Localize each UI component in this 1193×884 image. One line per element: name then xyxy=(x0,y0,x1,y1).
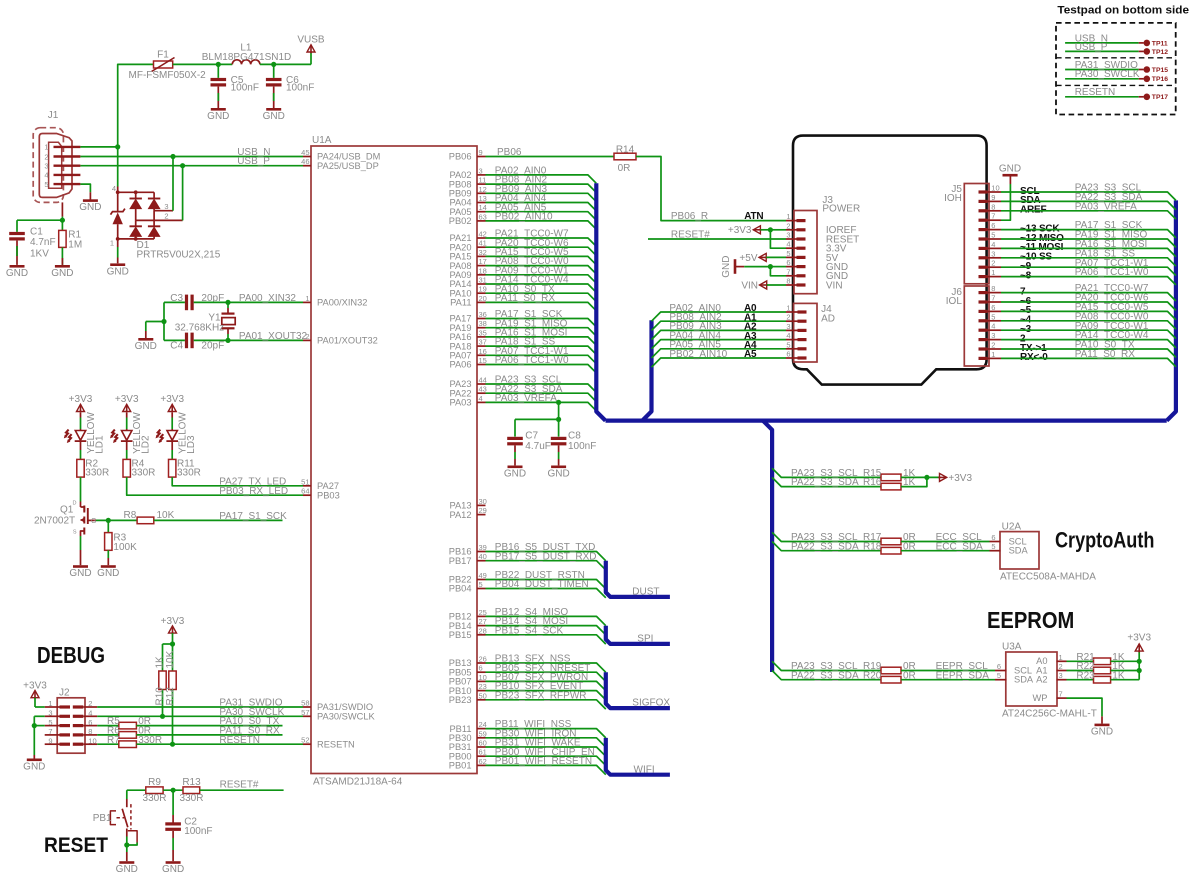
svg-text:2: 2 xyxy=(991,259,995,268)
wire PA11_S0_RX xyxy=(486,302,597,310)
wire PB30_WIFI_IRQN xyxy=(486,738,606,747)
svg-text:ATSAMD21J18A-64: ATSAMD21J18A-64 xyxy=(313,777,403,788)
svg-text:PA17_S1_SCK: PA17_S1_SCK xyxy=(219,511,287,522)
pin U1A-63 PB02 xyxy=(477,220,486,222)
svg-text:PA11_S0_RX: PA11_S0_RX xyxy=(495,293,556,304)
resistor R13 xyxy=(183,787,200,794)
resistor R15 xyxy=(881,474,901,481)
power +3V3 LD3 xyxy=(171,404,173,412)
svg-text:PB03: PB03 xyxy=(317,490,340,500)
svg-text:R18: R18 xyxy=(863,541,882,552)
svg-text:5: 5 xyxy=(479,580,483,589)
switch PB1 xyxy=(126,790,128,799)
svg-text:PA00_XIN32: PA00_XIN32 xyxy=(239,293,297,304)
svg-text:EEPR_SDA: EEPR_SDA xyxy=(936,670,990,681)
diode D1d top xyxy=(153,192,155,198)
svg-text:USB_P: USB_P xyxy=(1075,42,1108,53)
svg-text:PB06: PB06 xyxy=(497,147,522,158)
wire PA05_AIN5 to J4 xyxy=(652,349,787,358)
svg-text:R7: R7 xyxy=(107,735,120,746)
pin J3-1 xyxy=(797,219,806,222)
resistor R10 xyxy=(162,644,164,671)
resistor R12 xyxy=(172,644,174,671)
svg-text:PB17: PB17 xyxy=(449,556,472,566)
power +3V3 R10 R12 xyxy=(172,626,174,634)
resistor R18 xyxy=(881,547,901,554)
led LD1 xyxy=(80,429,82,431)
svg-text:IOL: IOL xyxy=(946,296,963,307)
pin U1A-16 PA07 xyxy=(477,354,486,356)
ground GND R1 xyxy=(55,265,70,268)
wire PA06_TCC1-W0 to J5 xyxy=(1001,277,1176,285)
wire PA22_S3_SDA to R20 xyxy=(772,671,881,680)
svg-text:51: 51 xyxy=(301,477,309,486)
wire PA08_TCC0-W0 to J6 xyxy=(1001,321,1176,329)
wire PA20_TCC0-W6 xyxy=(486,247,597,255)
pin U1A-29 PA12 xyxy=(477,514,486,516)
svg-text:+3V3: +3V3 xyxy=(115,394,139,405)
svg-text:GND: GND xyxy=(999,164,1021,175)
pin J4-1 xyxy=(798,310,807,313)
wire PA31_SWDIO xyxy=(97,706,303,708)
wire PB08_AIN2 to J4 xyxy=(652,321,787,330)
pin J4-3 xyxy=(798,329,807,332)
svg-text:PB15_S4_SCK: PB15_S4_SCK xyxy=(495,625,564,636)
svg-text:0R: 0R xyxy=(618,163,631,174)
svg-text:2N7002T: 2N7002T xyxy=(34,516,75,527)
svg-text:3: 3 xyxy=(991,331,995,340)
wire PB16_S5_DUST_TXD xyxy=(486,552,606,561)
wire PA30_SWCLK xyxy=(97,715,303,717)
svg-text:3: 3 xyxy=(786,231,790,240)
svg-text:7: 7 xyxy=(991,212,995,221)
wire Q1 source to ground xyxy=(80,536,82,550)
pin U1A-61 PB00 xyxy=(477,755,486,757)
pin U1A-19 PA10 xyxy=(477,292,486,294)
resistor R19 xyxy=(881,667,901,674)
wire crystal gnd branch xyxy=(163,302,165,340)
ground GND Q1 xyxy=(73,565,88,568)
svg-text:PB06_R: PB06_R xyxy=(671,211,708,222)
wire PA23_S3_SCL to R19 xyxy=(772,661,881,670)
svg-text:SDA: SDA xyxy=(1014,675,1034,685)
svg-text:29: 29 xyxy=(479,506,487,515)
wire ECC_SDA xyxy=(901,550,990,552)
svg-text:+3V3: +3V3 xyxy=(728,225,752,236)
pin J1-2 xyxy=(54,155,81,157)
pin J6-3 xyxy=(979,338,988,341)
pin U1A-2 PA01/XOUT32 xyxy=(303,339,311,341)
svg-text:GND: GND xyxy=(721,255,732,277)
power +3V3 LD1 xyxy=(80,404,82,412)
pin U1A-40 PB17 xyxy=(477,560,486,562)
wire VUSB rail xyxy=(118,64,154,146)
svg-text:5: 5 xyxy=(48,718,52,727)
svg-text:PA00/XIN32: PA00/XIN32 xyxy=(317,298,367,308)
svg-text:3: 3 xyxy=(48,709,52,718)
pin U1A-43 PA22 xyxy=(477,392,486,394)
svg-text:PA30/SWCLK: PA30/SWCLK xyxy=(317,712,375,722)
pin U3A-6 SCL xyxy=(995,670,1007,672)
wire PA11_S0_RX to J6 xyxy=(1001,358,1176,366)
svg-text:SDA: SDA xyxy=(1009,546,1029,556)
wire PA03_VREFA xyxy=(486,402,597,410)
svg-text:3: 3 xyxy=(164,202,168,211)
svg-text:45: 45 xyxy=(301,148,309,157)
pin U1A-38 PA19 xyxy=(477,327,486,329)
svg-text:2: 2 xyxy=(786,221,790,230)
wire PA04_AIN4 to J4 xyxy=(652,340,787,349)
svg-text:GND: GND xyxy=(116,864,138,875)
wire PA10_S0_TX xyxy=(136,725,282,727)
svg-text:GND: GND xyxy=(23,761,45,772)
wire PA11_S0_RX xyxy=(136,734,282,736)
svg-text:PB17_S5_DUST_RXD: PB17_S5_DUST_RXD xyxy=(495,551,597,562)
svg-text:+3V3: +3V3 xyxy=(161,616,185,627)
pin J6-4 xyxy=(979,329,988,332)
svg-text:10K: 10K xyxy=(157,510,175,521)
resistor R14 xyxy=(614,153,636,160)
power +3V3 EEPROM xyxy=(1138,651,1140,680)
pin J1-3 xyxy=(54,164,81,166)
wire F1 to L1 xyxy=(173,63,233,65)
bus I2C branch xyxy=(763,421,772,672)
svg-text:A2: A2 xyxy=(1036,675,1047,685)
wire PA10_S0_TX to J6 xyxy=(1001,349,1176,357)
svg-text:7: 7 xyxy=(991,294,995,303)
svg-text:PA11: PA11 xyxy=(450,298,471,308)
svg-text:PA06: PA06 xyxy=(449,360,471,370)
svg-text:64: 64 xyxy=(301,487,309,496)
svg-text:D: D xyxy=(73,501,77,507)
wire PA23_S3_SCL to R15 xyxy=(772,468,881,477)
ic U3A AT24C256C xyxy=(1006,652,1057,706)
svg-text:GND: GND xyxy=(162,864,184,875)
wire PB14_S4_MOSI xyxy=(486,626,606,635)
pin J2-4 xyxy=(73,715,84,718)
pin U3A-7 WP xyxy=(1057,697,1067,699)
svg-text:PB04_DUST_TIMEN: PB04_DUST_TIMEN xyxy=(495,579,589,590)
pin U1A-6 PB05 xyxy=(477,671,486,673)
svg-text:330R: 330R xyxy=(177,468,201,479)
pin U1A-20 PA11 xyxy=(477,301,486,303)
svg-text:3: 3 xyxy=(479,166,483,175)
wire PA15_TCC0-W5 xyxy=(486,256,597,264)
svg-text:5: 5 xyxy=(991,312,995,321)
svg-text:R10: R10 xyxy=(154,687,165,706)
pin U1A-10 PB07 xyxy=(477,680,486,682)
transistor Q1 xyxy=(80,477,82,501)
pin U1A-42 PA21 xyxy=(477,237,486,239)
svg-text:GND: GND xyxy=(51,268,73,279)
svg-text:4.7uF: 4.7uF xyxy=(525,441,551,452)
ground GND C7 xyxy=(508,465,523,468)
svg-text:+3V3: +3V3 xyxy=(1127,633,1151,644)
pin U1A-24 PB11 xyxy=(477,728,486,730)
wire USB_N xyxy=(80,156,303,158)
pin U1A-37 PA18 xyxy=(477,345,486,347)
svg-text:VIN: VIN xyxy=(741,280,758,291)
svg-text:3: 3 xyxy=(1059,671,1063,680)
pin U1A-23 PB10 xyxy=(477,690,486,692)
pin U1A-46 PA25/USB_DP xyxy=(303,165,311,167)
bus main horizontal xyxy=(606,419,1167,423)
svg-text:EEPROM: EEPROM xyxy=(987,607,1074,633)
wire PA19_S1_MISO to J5 xyxy=(1001,239,1176,247)
pin U1A-50 PB23 xyxy=(477,699,486,701)
wire PB06_R to ATN xyxy=(636,157,786,221)
wire PA22_S3_SDA to R18 xyxy=(772,542,881,551)
svg-text:4: 4 xyxy=(786,240,790,249)
wire XIN32 xyxy=(194,301,303,303)
wire PB00_WIFI_CHIP_EN xyxy=(486,756,606,765)
pin U1A-60 PB31 xyxy=(477,746,486,748)
wire XOUT32 xyxy=(194,339,303,341)
svg-text:ECC_SDA: ECC_SDA xyxy=(936,541,984,552)
svg-text:C3: C3 xyxy=(170,293,183,304)
svg-text:MF-FSMF050X-2: MF-FSMF050X-2 xyxy=(129,70,207,81)
svg-text:VIN: VIN xyxy=(826,280,843,291)
wire EEPR_SDA xyxy=(901,679,995,681)
pin J1-4 xyxy=(54,174,81,176)
svg-text:7: 7 xyxy=(1059,690,1063,699)
testpad panel box xyxy=(1056,23,1176,115)
bus right vertical xyxy=(1167,200,1176,420)
svg-text:6: 6 xyxy=(991,221,995,230)
svg-text:8: 8 xyxy=(991,202,995,211)
svg-text:10: 10 xyxy=(991,184,999,193)
wire PA19_S1_MISO xyxy=(486,328,597,336)
pin U1A-28 PB15 xyxy=(477,634,486,636)
pin D1-2 wire to USB_P xyxy=(136,219,183,221)
wire PA14_TCC0-W4 to J6 xyxy=(1001,340,1176,348)
wire PB04_DUST_TIMEN xyxy=(486,589,606,598)
pin J5-3 xyxy=(979,256,988,259)
svg-text:5: 5 xyxy=(997,671,1001,680)
svg-text:2: 2 xyxy=(991,341,995,350)
svg-text:TP12: TP12 xyxy=(1152,49,1168,56)
capacitor C2 xyxy=(172,790,174,815)
svg-text:C1: C1 xyxy=(30,227,43,238)
svg-text:8: 8 xyxy=(991,284,995,293)
svg-text:+3V3: +3V3 xyxy=(69,394,93,405)
pin U1A-59 PB30 xyxy=(477,737,486,739)
ground GND R3 xyxy=(101,565,116,568)
wire J1 pin5 to ground xyxy=(80,184,90,192)
wire RESETN xyxy=(136,743,303,745)
pin J5-10 xyxy=(979,190,988,193)
wire PB12_S4_MISO xyxy=(486,616,606,625)
svg-text:F1: F1 xyxy=(157,50,169,61)
svg-text:AD: AD xyxy=(821,314,835,325)
svg-text:GND: GND xyxy=(97,568,119,579)
svg-text:GND: GND xyxy=(207,111,229,122)
svg-text:7: 7 xyxy=(48,727,52,736)
ground GND J5 pin7 xyxy=(1001,184,1010,220)
pin J3-7 xyxy=(797,274,806,277)
svg-text:GND: GND xyxy=(263,111,285,122)
wire PA02_AIN0 to J4 xyxy=(652,312,787,321)
svg-text:S: S xyxy=(73,530,77,536)
svg-text:4: 4 xyxy=(88,709,92,718)
svg-text:+3V3: +3V3 xyxy=(160,394,184,405)
pin U1A-25 PB12 xyxy=(477,615,486,617)
svg-text:LD3: LD3 xyxy=(186,435,197,454)
svg-text:57: 57 xyxy=(301,708,309,717)
wire PB23_SFX_RFPWR xyxy=(486,700,606,709)
wire PA27_TX_LED xyxy=(172,477,303,486)
svg-text:46: 46 xyxy=(301,157,309,166)
pin J5-6 xyxy=(979,228,988,231)
pin J2-5 xyxy=(60,724,71,727)
diode D1e bottom xyxy=(153,211,155,226)
pin U2A-6 SCL xyxy=(990,541,1001,543)
wire PB05_SFX_NRESET xyxy=(486,672,606,681)
board outline MKR socket xyxy=(793,136,987,385)
svg-text:PA06_TCC1-W0: PA06_TCC1-W0 xyxy=(495,355,569,366)
testpad TP16 PA30_SWCLK xyxy=(1065,78,1139,80)
svg-text:Testpad on bottom side: Testpad on bottom side xyxy=(1057,4,1189,16)
capacitor C3 xyxy=(164,301,185,303)
pin U1A-32 PA15 xyxy=(477,255,486,257)
wire PA17_S1_SCK stub xyxy=(154,519,283,521)
wire PB01_WIFI_RESETN xyxy=(486,765,606,774)
wire reset row xyxy=(127,789,146,791)
svg-text:6: 6 xyxy=(991,303,995,312)
wire PA03_VREFA to J5 xyxy=(1001,211,1176,219)
wire PB09_AIN3 xyxy=(486,193,597,201)
svg-text:2: 2 xyxy=(44,152,48,161)
resistor R3 xyxy=(107,520,109,532)
pin J6-7 xyxy=(979,300,988,303)
svg-text:7: 7 xyxy=(786,267,790,276)
svg-text:DEBUG: DEBUG xyxy=(37,642,105,668)
pin U1A-12 PB09 xyxy=(477,192,486,194)
pin U1A-3 PA02 xyxy=(477,174,486,176)
wire PA17_S1_SCK to J5 xyxy=(1001,230,1176,238)
svg-text:1KV: 1KV xyxy=(30,249,49,260)
pin J2-9 xyxy=(60,743,71,746)
wire ECC_SCL xyxy=(901,541,990,543)
svg-text:2: 2 xyxy=(786,313,790,322)
svg-text:30: 30 xyxy=(479,497,487,506)
wire PB03_RX_LED xyxy=(127,477,303,495)
svg-text:9: 9 xyxy=(991,193,995,202)
resistor R1 xyxy=(61,220,63,230)
svg-text:1: 1 xyxy=(110,239,114,248)
wire PA05_AIN5 xyxy=(486,212,597,220)
pin J4-5 xyxy=(798,347,807,350)
svg-text:5: 5 xyxy=(991,542,995,551)
svg-text:IOH: IOH xyxy=(944,193,962,204)
resistor R16 xyxy=(881,483,901,490)
resistor R8 xyxy=(137,517,154,524)
pin J2-3 xyxy=(60,715,71,718)
svg-text:R14: R14 xyxy=(616,144,635,155)
wire RESET# xyxy=(200,789,284,791)
resistor R17 xyxy=(881,538,901,545)
wire PB08_AIN2 xyxy=(486,184,597,192)
testpad TP17 RESETN xyxy=(1065,96,1139,98)
pin U1A-27 PB14 xyxy=(477,625,486,627)
diode D1c bottom xyxy=(135,220,137,226)
svg-text:U3A: U3A xyxy=(1002,642,1022,653)
svg-text:10: 10 xyxy=(88,736,96,745)
ground GND C2 xyxy=(166,861,181,864)
svg-text:J1: J1 xyxy=(48,110,59,121)
wire PB15_S4_SCK xyxy=(486,635,606,644)
svg-text:PB06: PB06 xyxy=(449,152,472,162)
pin U1A-26 PB13 xyxy=(477,662,486,664)
resistor R6 xyxy=(97,734,119,736)
wire PB02_AIN10 to J4 xyxy=(652,358,787,367)
svg-text:GND: GND xyxy=(6,268,28,279)
pin U1A-15 PA06 xyxy=(477,364,486,366)
wire PA23_S3_SCL to R17 xyxy=(772,532,881,541)
bus SIGFOX xyxy=(606,672,670,708)
wire J1 shield to C1 R1 xyxy=(61,202,63,216)
svg-text:PB02_AIN10: PB02_AIN10 xyxy=(669,349,727,360)
svg-text:PA22_S3_SDA: PA22_S3_SDA xyxy=(791,541,859,552)
pin U1A-30 PA13 xyxy=(477,504,486,506)
svg-text:1: 1 xyxy=(305,294,309,303)
svg-text:1: 1 xyxy=(44,143,48,152)
svg-text:20pF: 20pF xyxy=(201,341,224,352)
wire R16 up to +3V3 node xyxy=(901,477,927,486)
pin J2-7 xyxy=(60,733,71,736)
wire PA21_TCC0-W7 to J6 xyxy=(1001,293,1176,301)
svg-text:A5: A5 xyxy=(744,349,757,360)
wire PB02_AIN10 xyxy=(486,221,597,229)
wire PA16_S1_MOSI xyxy=(486,337,597,345)
svg-text:ATN: ATN xyxy=(744,211,763,222)
pin J1-5 xyxy=(54,183,81,185)
wire PB09_AIN3 to J4 xyxy=(652,330,787,339)
svg-text:52: 52 xyxy=(301,736,309,745)
wire PA10_S0_TX xyxy=(486,293,597,301)
pin J4-2 xyxy=(798,320,807,323)
resistor R7 xyxy=(97,743,119,745)
resistor R4 xyxy=(123,459,130,477)
svg-text:PA03: PA03 xyxy=(449,398,471,408)
wire PB07_SFX_PWRON xyxy=(486,681,606,690)
pin U1A-14 PA05 xyxy=(477,211,486,213)
svg-text:R16: R16 xyxy=(863,477,882,488)
wire J1 VBUS to rail xyxy=(80,146,117,148)
pin U3A-3 A2 xyxy=(1057,679,1067,681)
wire PB22_DUST_RSTN xyxy=(486,580,606,589)
wire PA04_AIN4 xyxy=(486,203,597,211)
svg-text:1K: 1K xyxy=(154,656,165,669)
pin U3A-1 A0 xyxy=(1057,660,1067,662)
pin J3-4 xyxy=(797,247,806,250)
pin U1A-51 PA27 xyxy=(303,485,311,487)
wire PA02_AIN0 xyxy=(486,175,597,183)
pin J6-6 xyxy=(979,310,988,313)
svg-text:PB01_WIFI_RESETN: PB01_WIFI_RESETN xyxy=(495,756,592,767)
svg-text:PB23: PB23 xyxy=(449,695,472,705)
svg-text:GND: GND xyxy=(69,568,91,579)
svg-text:6: 6 xyxy=(991,533,995,542)
ground GND Y1 xyxy=(138,338,153,341)
bus AD branch xyxy=(642,320,651,420)
svg-text:GND: GND xyxy=(107,266,129,277)
svg-text:8: 8 xyxy=(786,277,790,286)
power VUSB xyxy=(310,52,312,65)
inductor L1 xyxy=(232,60,260,65)
svg-text:PA03_VREFA: PA03_VREFA xyxy=(495,393,557,404)
svg-text:5: 5 xyxy=(786,249,790,258)
